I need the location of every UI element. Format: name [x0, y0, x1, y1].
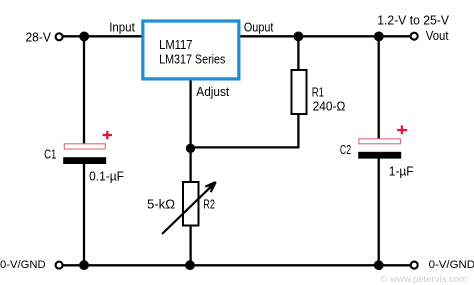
svg-text:0-V/GND: 0-V/GND: [0, 259, 46, 271]
svg-text:28-V: 28-V: [26, 30, 52, 44]
svg-text:0-V/GND: 0-V/GND: [429, 259, 474, 271]
svg-text:1-µF: 1-µF: [389, 164, 414, 178]
svg-text:240-Ω: 240-Ω: [313, 99, 346, 113]
svg-text:R2: R2: [203, 198, 215, 212]
svg-text:LM317 Series: LM317 Series: [159, 53, 225, 67]
svg-text:Adjust: Adjust: [196, 85, 229, 99]
svg-text:1.2-V to 25-V: 1.2-V to 25-V: [377, 13, 449, 27]
svg-text:LM117: LM117: [159, 38, 192, 52]
svg-text:5-kΩ: 5-kΩ: [147, 198, 175, 212]
svg-text:© www.petervis.com: © www.petervis.com: [381, 274, 468, 285]
svg-text:C1: C1: [44, 148, 56, 162]
svg-text:0.1-µF: 0.1-µF: [89, 170, 124, 184]
svg-text:Input: Input: [109, 21, 135, 35]
svg-text:R1: R1: [312, 86, 324, 100]
svg-text:Ouput: Ouput: [244, 21, 274, 35]
svg-text:C2: C2: [340, 143, 351, 157]
svg-text:Vout: Vout: [426, 29, 449, 43]
